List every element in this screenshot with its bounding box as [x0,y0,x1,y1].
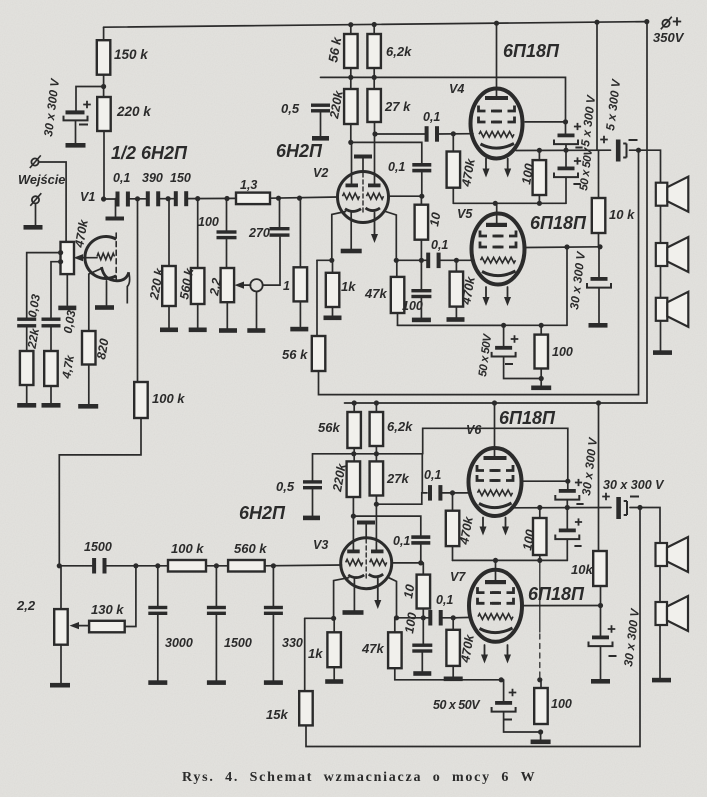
tube V5 envelope [472,214,525,285]
node 10k bottom [597,244,602,249]
tube V2 envelope [338,172,389,223]
svg-text:150: 150 [170,171,191,185]
wire V2 cathode ground stem [350,213,352,249]
node rail-V4 [494,21,499,26]
svg-text:27k: 27k [386,471,409,486]
label plus output cap [600,136,608,144]
svg-text:100: 100 [402,299,423,313]
node cath 100 bottom [539,376,544,381]
svg-text:0,1: 0,1 [436,593,453,607]
node main-560k [195,196,200,201]
wire screen feed line top [321,77,566,122]
speaker 1 [656,183,668,206]
wire V6 cap2 top [566,508,568,529]
tube V3 right grid zigzag [370,559,387,565]
wire 10 lower bottom [422,609,424,618]
wire V4 screen stub [525,121,566,123]
tube V1 envelope arc [85,237,116,279]
node 150k-220k junction [101,84,106,89]
svg-text:1: 1 [283,279,290,293]
capacitor 50x50V lower [558,167,575,171]
resistor 220k plate [344,89,358,124]
wire 10k to 30x300 cap [598,247,600,277]
terminal input bottom [32,196,39,203]
capacitor 0.5 lower [303,480,322,483]
svg-text:1k: 1k [341,279,356,294]
tube V6 grid zigzag [478,490,513,496]
ground 1500b [207,680,226,685]
node lower-1500b [214,563,219,568]
wire 6.2k to 27k [373,68,375,89]
wire V4 anode stem [496,23,498,96]
svg-text:6П18П: 6П18П [528,584,585,604]
wire 100 cath ground [540,369,542,386]
svg-text:10 k: 10 k [609,207,635,222]
tube V2 right grid zigzag [367,193,384,199]
ground V1 cathode [95,305,114,310]
node 470k V6 grid [450,490,455,495]
tube V6 cathode arc [479,503,512,508]
capacitor 3000 [148,606,167,609]
svg-text:15k: 15k [266,707,288,722]
capacitor 0.1 V5 grid [426,253,430,269]
svg-text:270: 270 [248,226,270,240]
svg-text:V6: V6 [466,423,482,437]
capacitor 50x50V cathode [495,346,512,350]
arrow V3 right cathode [377,579,379,602]
node V3 right grid [418,560,423,565]
arrow 2.2 wiper [243,284,251,286]
node main-220k grid leak [166,196,171,201]
ground input [24,225,43,230]
wire V5 grid entry [456,259,474,261]
potentiometer 2.2 lower [54,609,67,645]
resistor 47k lower [388,632,402,668]
label minus V6 cap2 [574,545,581,547]
ground 330 [264,680,283,685]
ground 0.5 [312,136,329,141]
ground 1k lower [325,679,343,684]
capacitor 0.03 #1 [17,318,36,321]
node lout-caps [565,505,570,510]
wire 220k to V2 left anode [350,124,352,142]
wire 220k jog to 0.1 [351,142,422,163]
tube V4 g3 dashes [479,106,486,112]
wire speaker chain lower [659,566,661,602]
label +350V plus [673,17,681,25]
wire tap lower to 0.03 #2 [51,262,61,318]
wire filter cap branch [76,87,104,111]
label minus output cap [629,139,638,141]
tube V6 g3 dashes [477,465,484,471]
wire terminal2 ground [35,203,37,225]
ground 100 bypass [412,318,431,323]
wire cathode line right [396,259,429,261]
node V7 100 bottom [538,729,543,734]
resistor 560k top [191,268,205,304]
wire 27k jog to V6 cap [376,493,427,504]
wire lrail to 10k lower [598,403,600,551]
tube V5 grid zigzag [481,257,516,263]
wire 10k to 30x300 lower [600,606,602,636]
wire 0.03#1 to 22k [26,328,28,352]
resistor 10k [592,198,606,233]
wire 100 bypass ground [420,298,422,317]
wire 27k to anode node [374,122,376,134]
tube V3 right anode bar [371,550,384,554]
wire 15k stub [304,618,306,691]
wire cath cap bottom [504,357,542,379]
svg-text:100: 100 [551,697,572,711]
tube V1 anode bar [106,217,125,221]
svg-text:47k: 47k [364,286,387,301]
wire 56k to 220k [350,68,352,89]
svg-text:3000: 3000 [165,636,193,650]
node 6.2k-27k junction lower [374,451,379,456]
wire V1 cathode center stem [106,281,108,305]
ground 2.2 lower [50,683,70,688]
capacitor 330 [264,606,283,609]
node lout-100 [537,505,542,510]
tube V7 envelope [469,570,522,642]
wire 4.7k ground [50,386,52,403]
node main-100k [135,196,140,201]
ground speakers lower [652,678,671,683]
node lower-330 [271,563,276,568]
wire V2 left anode stem [351,142,353,183]
wire V2 right anode stem [374,134,376,184]
wire V6 screen stub [523,480,568,482]
wire V3 jog to 0.1 [353,516,420,535]
tube V2 shield stem [362,159,364,173]
resistor 470k V5 [450,272,464,307]
wire main line V1 to V2 [104,198,118,200]
wire tap upper to 0.03 #1 [27,253,61,318]
svg-text:0,1: 0,1 [431,238,448,252]
resistor 10 lower [417,575,431,609]
resistor 22k [20,351,34,385]
wire 30x300 lower ground [600,647,602,680]
svg-text:V2: V2 [313,166,328,180]
resistor 220k lower [347,461,361,497]
wire cathode line left segment [317,259,332,261]
node pot tap lower [58,259,63,264]
tube V7 anode bar [485,580,506,584]
wire V3 cathode ground stem [353,579,355,611]
node cathode-47k [394,258,399,263]
wire branch to cathode net [566,247,568,325]
node 220k bottom [348,140,353,145]
svg-text:100: 100 [552,345,573,359]
wire V7 cath cap top [503,680,505,701]
svg-text:50 x 50V: 50 x 50V [433,698,481,712]
label minus cap2 [573,183,580,185]
capacitor 30x300V V7 screen [592,636,609,640]
capacitor 1500 series [92,558,96,574]
ground pot 470k [58,306,76,311]
wire 100 cath top [540,325,542,334]
wire speaker chain top [660,206,662,243]
node lcath-47k [394,615,399,620]
wire wiper to V1 grid [83,257,98,259]
wire 220k grid leak stub [168,199,170,266]
wire 1res ground [299,301,301,326]
tube V2 right anode bar [368,184,381,188]
wire V3 left cathode lead [334,578,349,618]
tube V7 g3 dashes [478,587,485,593]
svg-text:560 k: 560 k [234,541,267,556]
arrow wiper 470k [74,254,84,261]
wire input to pot [39,162,67,242]
wire 0.1 to grid node [421,172,423,196]
wire 30x300 ground [598,288,600,323]
resistor 100 V4V5 [533,160,547,195]
label plus V7 screen cap [608,625,616,633]
label plus V6 screen cap [575,479,582,486]
svg-text:1k: 1k [308,646,323,661]
node V7 screen 10k [598,603,603,608]
node 220k lower jog [351,514,356,519]
tube V5 g3 dashes [480,231,487,237]
svg-text:0,1: 0,1 [113,171,130,185]
svg-text:6,2k: 6,2k [386,44,412,59]
tube V3 shield dashed [365,539,367,580]
tube V4 anode bar [485,96,508,100]
wire 3000 ground [157,615,159,680]
wire +350V top rail [104,22,647,28]
wire V1 cathode to 820 [89,268,102,331]
wire V7 100 ground stub [540,732,542,740]
wire 1res stub [299,198,301,267]
speaker 2 [656,243,668,266]
wire cap to ground [75,120,77,143]
wire 100 lower ground [421,653,423,672]
svg-text:Wejście: Wejście [18,172,65,187]
wire 1k lower ground [333,667,335,679]
arrow V7 cathode right [507,645,509,656]
wire 220k gl ground [168,306,170,328]
arrow V5 cathode right [507,287,509,299]
wire V5 anode line [453,202,566,204]
wire lower main line [59,565,92,567]
svg-text:6Н2П: 6Н2П [239,503,286,523]
wire V7 anode stem [495,560,497,580]
capacitor 50x50V V4 screen [565,122,567,134]
resistor 1k lower [327,632,341,667]
wire 560k ground [197,304,199,328]
resistor 100k lower [168,560,206,572]
wire feedback 56k stub [316,260,318,336]
tube V1 cathode arc [102,267,129,281]
node 27k lower bottom [374,502,379,507]
node main-1res [297,196,302,201]
ground 30x300 top [589,323,608,328]
wire 100 V6V7 bottom stub [539,555,541,560]
wire 1500b ground [215,615,217,680]
wire V6 anode stem [494,403,496,456]
resistor 1.3 [236,193,270,205]
svg-text:0,5: 0,5 [276,479,295,494]
wire 0.5 lower stub [312,454,314,480]
tube V2 left anode bar [346,184,359,188]
capacitor 390 [146,191,150,206]
node lcathnet-100 [537,677,542,682]
resistor 10 [415,205,429,240]
wire V1 anode stem [115,199,117,217]
wire 330 stub [272,566,274,606]
wire junction line lower [313,453,423,455]
wire screen cap to out line [565,145,567,151]
svg-text:150 k: 150 k [114,47,149,62]
node lower input [57,563,62,568]
wire lower feedback loop [306,508,640,747]
resistor 1 [294,267,308,301]
wire V2 left cathode lead [332,212,346,261]
node rail-6.2k [372,22,377,27]
resistor 560k lower [228,560,265,572]
ground V2 cathode [341,249,362,254]
svg-text:10k: 10k [571,562,593,577]
resistor 47k [391,277,405,313]
arrow V4 cathode right [507,159,509,171]
wire 100 V4V5 top [538,150,540,160]
node cathode-1k [329,258,334,263]
label minus 30x300V [79,124,88,126]
tube V2 shield bar [354,155,372,159]
node V1 anode line [101,196,106,201]
arrow V2 right cathode [374,213,376,236]
svg-text:2,2: 2,2 [16,598,36,613]
node lower-3000 [155,563,160,568]
svg-text:V5: V5 [457,207,473,221]
capacitor 0.5 screen [311,104,330,107]
label plus cath cap [511,335,519,343]
wire 100 cap stub [226,199,228,231]
label plus screen cap [574,123,581,130]
node lower-130k [133,563,138,568]
node 6.2k-27k junction [372,75,377,80]
svg-text:10: 10 [427,211,443,227]
node V2 right grid [419,194,424,199]
wire cathode line lower right [397,617,432,619]
wire 1k lower stub [333,618,335,632]
tube V3 left cathode arc [348,575,364,578]
tube V4 cathode arc [481,144,515,149]
label plus output lower [602,493,610,501]
node V6 screen [565,479,570,484]
speaker 4 [656,543,668,566]
resistor 27k lower [370,461,384,495]
capacitor 0.1 V6 grid [428,485,432,501]
capacitor 100 bypass [411,289,431,292]
svg-text:350V: 350V [653,30,685,45]
resistor 150k [103,27,105,40]
wire 100 bypass stub [420,260,422,289]
tube V1 dashed half [115,233,117,282]
wire 0.03#2 to 4.7k [50,328,52,352]
ground 100 cath [531,386,551,391]
resistor 56k lower [347,412,361,448]
capacitor V6 screen cap [567,481,569,489]
ground 470k V5 [447,317,465,322]
wire 100k tap long [137,199,139,382]
wire V7 cath cap bottom [504,712,541,732]
tube V6 envelope [469,448,522,516]
node cathode-470k [454,258,459,263]
label minus V7 screen cap [609,655,617,657]
svg-text:V3: V3 [313,538,328,552]
ground 220k gl [160,328,178,333]
capacitor 0.1 V3 right grid [411,535,430,539]
svg-text:6П18П: 6П18П [503,41,560,61]
node rail-right [644,19,649,24]
capacitor 50x50V V7 [495,701,512,705]
svg-text:100 k: 100 k [171,541,204,556]
wire 2.2 lower ground [60,645,62,683]
wire 6.2k-27k lower [375,446,377,461]
wire faint link V6-V7 nets [539,560,541,632]
resistor 130k pot [89,621,125,633]
tube V4 grid zigzag [479,132,514,138]
resistor 220k supply [97,97,111,131]
arrow V6 cathode right [505,518,507,529]
wire 470k V6 to V7 line [452,546,454,560]
wire V1 cathode hook [127,272,129,303]
arrow 130k wiper [70,622,80,629]
wire 2.2 ground [226,302,228,328]
resistor 4.7k [44,351,58,386]
node main-270 [276,196,281,201]
ground jack [247,328,265,333]
ground speakers top [653,350,672,355]
wire 470k V4 stub [452,134,454,152]
tube V5 anode bar [486,223,507,227]
svg-text:V1: V1 [80,190,95,204]
resistor 10k lower [593,551,607,586]
wire 1k stub [332,260,334,273]
svg-text:V4: V4 [449,82,464,96]
wire V7 anode line [453,559,568,561]
tube V5 cathode arc [482,271,516,276]
wire 47k to V7 cathode net [395,668,501,680]
wire pot bottom to ground [66,274,68,305]
wire 130k to wiper arrow [78,625,89,627]
capacitor 0.03 #2 [42,318,61,321]
capacitor 270 [270,227,290,230]
capacitor 150 [174,191,178,206]
svg-text:6,2k: 6,2k [387,419,413,434]
svg-text:30 x 300 V: 30 x 300 V [603,478,665,492]
wire jack to 270 branch [263,237,280,285]
wire V3 right lead to cathode line [389,578,397,618]
ground 0.5 lower [303,516,320,521]
node lcath-470k [451,615,456,620]
wire 47k stub [396,260,398,277]
wire 1k ground [332,307,334,316]
svg-text:56 k: 56 k [282,347,308,362]
capacitor 0.1 V4 grid [425,126,429,142]
node screen-branch [564,244,569,249]
label minus V7 cath cap [504,719,512,721]
ground 4.7k [42,403,61,408]
wire 470k V4 to cathode line [452,188,454,204]
wire lower rail [345,402,648,404]
tube V7 g2 dashes [478,598,485,604]
wire lower output line [514,507,611,509]
resistor 6.2k [367,34,381,68]
wire 6.2k stub top [373,25,375,35]
resistor 100 V6V7 [533,518,547,555]
